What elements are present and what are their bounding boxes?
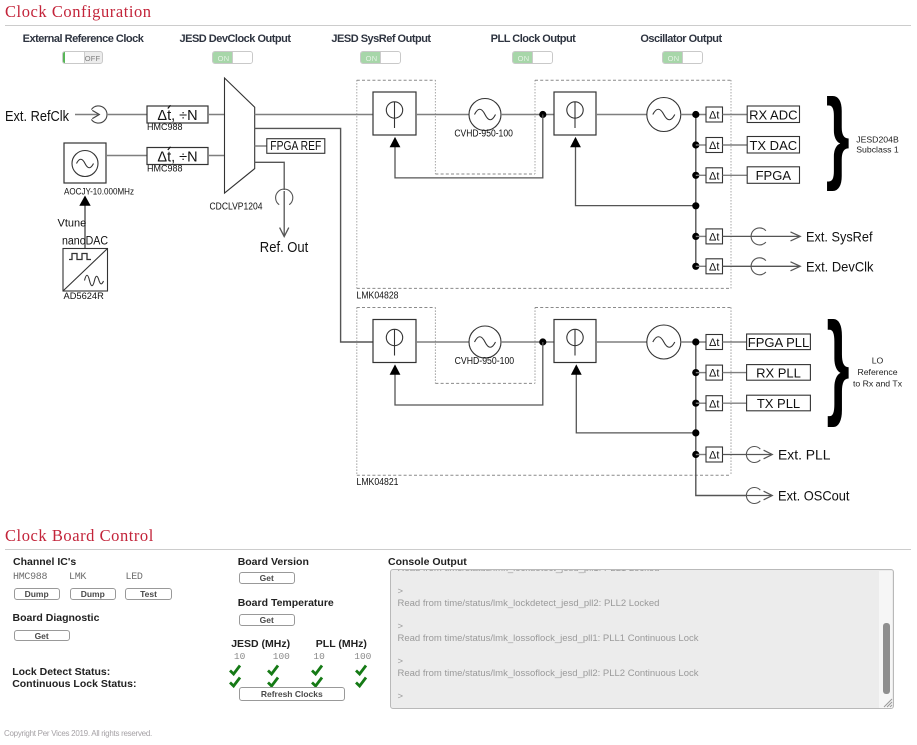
svg-text:TX PLL: TX PLL xyxy=(757,396,800,411)
phase detector PD2 (LMK04828) xyxy=(554,92,596,135)
wire Δt to RX PLL xyxy=(723,372,747,374)
svg-text:HMC988: HMC988 xyxy=(147,122,183,132)
delay Δt (Ext. SysRef row) xyxy=(706,229,723,244)
junction rail Ext. DevClk row xyxy=(692,263,699,270)
wire PD2 to VCO xyxy=(596,114,647,116)
svg-text:}: } xyxy=(826,78,850,192)
junction rail FPGA PLL row xyxy=(692,338,699,345)
svg-text:Δt: Δt xyxy=(709,398,719,410)
svg-text:AD5624R: AD5624R xyxy=(64,291,105,301)
Console Output xyxy=(388,556,467,568)
input port (circle with arrow) xyxy=(91,106,107,123)
wire Δt to FPGA PLL xyxy=(723,341,747,343)
delay Δt (Ext. PLL row) xyxy=(706,447,723,462)
node RX ADC xyxy=(747,106,799,123)
wire VCO to delay row FPGA PLL xyxy=(681,341,706,343)
wire PD2 to VCO xyxy=(596,341,647,343)
oscillator VCO (LMK04828) xyxy=(647,98,681,132)
junction rail TX DAC row xyxy=(692,141,699,148)
wire Vtune xyxy=(84,205,86,249)
toggle JESD SysRef Output (ON) xyxy=(360,51,401,64)
delay Δt (Ext. DevClk row) xyxy=(706,259,723,274)
brace LO Reference xyxy=(827,299,850,429)
toggle External Reference Clock (OFF) xyxy=(62,51,103,64)
svg-text:CDCLVP1204: CDCLVP1204 xyxy=(210,202,263,213)
junction xyxy=(539,111,546,118)
svg-text:LMK04828: LMK04828 xyxy=(357,290,399,301)
Lock status labels xyxy=(12,666,110,678)
Section heading: Clock Configuration xyxy=(5,2,152,22)
wire PD1 to VCXO xyxy=(416,341,469,343)
divider U2 HMC988 (Δt, ÷N) xyxy=(147,147,208,166)
node TX PLL xyxy=(747,395,811,411)
wire VCXO to PD2 xyxy=(501,114,554,116)
wire PD1 to VCXO xyxy=(416,114,469,116)
wire U2 to mux xyxy=(208,155,225,157)
svg-text:CVHD-950-100: CVHD-950-100 xyxy=(455,356,515,367)
feedback wire PD2 from rail xyxy=(576,375,696,433)
wire rail to Δt (TX DAC row) xyxy=(696,144,706,146)
Board Diagnostic xyxy=(13,612,100,624)
wire mux out3 to FPGA REF xyxy=(255,145,267,147)
svg-text:Δt: Δt xyxy=(709,450,719,462)
feedback wire PD2 from rail xyxy=(576,147,696,206)
svg-text:FPGA: FPGA xyxy=(756,168,792,183)
wire VCXO to PD2 xyxy=(501,341,554,343)
IC outline LMK04821 (dashed, notch for VCXO) xyxy=(357,308,731,476)
phase detector PD1 (LMK04821) xyxy=(373,320,416,363)
phase detector PD2 (LMK04821) xyxy=(554,320,596,363)
Channel IC's xyxy=(13,556,76,568)
label JESD204B Subclass 1 xyxy=(856,135,899,155)
svg-text:Vtune: Vtune xyxy=(58,218,87,230)
column headers xyxy=(3,33,163,45)
toggle Oscillator Output (ON) xyxy=(662,51,703,64)
arrowhead PD1 feedback xyxy=(390,364,401,374)
svg-text:Δt: Δt xyxy=(709,232,719,244)
toggle JESD DevClock Output (ON) xyxy=(212,51,253,64)
svg-text:FPGA REF: FPGA REF xyxy=(270,139,321,153)
junction rail Ext. SysRef row xyxy=(692,233,699,240)
node RX PLL xyxy=(747,365,811,381)
svg-text:Ext. OSCout: Ext. OSCout xyxy=(778,488,850,504)
arrowhead PD2 feedback xyxy=(570,137,581,147)
Board Temperature xyxy=(238,597,334,609)
checkmarks grid xyxy=(220,661,380,693)
svg-text:CVHD-950-100: CVHD-950-100 xyxy=(454,128,513,139)
svg-text:Ext. SysRef: Ext. SysRef xyxy=(806,228,873,244)
toggle PLL Clock Output (ON) xyxy=(512,51,553,64)
junction rail feedback row xyxy=(692,202,699,209)
arrowhead Vtune xyxy=(79,196,90,206)
wire Δt to RX ADC xyxy=(723,114,748,116)
wire mux out1 to PD1 LMK04828 xyxy=(255,114,373,116)
delay Δt (TX PLL row) xyxy=(706,396,723,411)
node FPGA REF xyxy=(267,139,325,154)
svg-text:Subclass 1: Subclass 1 xyxy=(856,145,899,155)
node FPGA PLL xyxy=(747,334,811,350)
svg-text:Δt: Δt xyxy=(709,170,719,182)
oscillator AOCJY-10.000MHz xyxy=(64,143,106,183)
wire Δt to TX DAC xyxy=(723,144,748,146)
wire input port to divider U1 xyxy=(107,114,147,116)
delay Δt (TX DAC row) xyxy=(706,138,723,153)
svg-text:Δt: Δt xyxy=(709,140,719,152)
svg-text:HMC988: HMC988 xyxy=(147,163,183,173)
mux CDCLVP1204 xyxy=(225,78,255,193)
svg-text:TX DAC: TX DAC xyxy=(749,138,797,153)
node FPGA xyxy=(747,167,799,184)
footer xyxy=(4,729,152,738)
delay Δt (FPGA PLL row) xyxy=(706,335,723,350)
junction rail TX PLL row xyxy=(692,400,699,407)
wire and output port Ext. OSCout xyxy=(746,487,772,503)
wire mux out2 to PD1 LMK04821 xyxy=(255,128,373,342)
svg-text:JESD204B: JESD204B xyxy=(856,135,899,145)
svg-text:to Rx and Tx: to Rx and Tx xyxy=(853,379,903,389)
wire U1 to mux xyxy=(208,114,225,116)
svg-text:RX PLL: RX PLL xyxy=(756,365,801,380)
clock rail LMK04821 xyxy=(696,342,747,496)
label LO Reference to Rx and Tx xyxy=(853,356,903,389)
output port Ref. Out (circle with arrow down) xyxy=(276,189,293,236)
Section heading: Clock Board Control xyxy=(5,526,154,546)
svg-text:Δt: Δt xyxy=(709,110,719,122)
JESD / PLL headers xyxy=(231,638,290,650)
junction rail RX ADC row xyxy=(692,111,699,118)
svg-text:Ext. DevClk: Ext. DevClk xyxy=(806,258,874,274)
arrowhead PD2 feedback xyxy=(571,364,582,374)
svg-text:Ext. PLL: Ext. PLL xyxy=(778,447,831,463)
svg-text:}: } xyxy=(827,299,850,429)
node TX DAC xyxy=(747,137,799,154)
brace JESD204B xyxy=(826,78,850,192)
svg-text:Δt: Δt xyxy=(709,337,719,349)
svg-text:AOCJY-10.000MHz: AOCJY-10.000MHz xyxy=(64,186,134,196)
wire VCO to delay row RX ADC xyxy=(681,114,706,116)
svg-text:Reference: Reference xyxy=(857,367,897,377)
feedback wire PD1 xyxy=(395,115,543,178)
svg-text:FPGA PLL: FPGA PLL xyxy=(748,335,809,350)
wire rail to Δt (TX PLL row) xyxy=(696,402,706,404)
divider U1 HMC988 (Δt, ÷N) xyxy=(147,105,208,124)
wire and output port Ext. SysRef xyxy=(723,228,801,245)
arrowhead PD1 feedback xyxy=(390,137,401,147)
wire Ext.RefClk to input port xyxy=(75,114,98,116)
wire mux out4 to Ref. Out port xyxy=(255,162,285,190)
nanoDAC AD5624R xyxy=(63,249,108,292)
junction xyxy=(539,338,546,345)
delay Δt (RX ADC row) xyxy=(706,107,723,122)
wire and output port Ext. PLL xyxy=(723,447,773,463)
wire Δt to TX PLL xyxy=(723,402,747,404)
delay Δt (RX PLL row) xyxy=(706,365,723,380)
Board Version xyxy=(238,556,309,568)
svg-text:RX ADC: RX ADC xyxy=(749,107,797,122)
svg-text:Ref. Out: Ref. Out xyxy=(260,240,309,256)
wire rail to Δt (Ext. DevClk row) xyxy=(696,265,706,267)
Refresh Clocks xyxy=(239,687,345,700)
IC outline LMK04828 (dashed, notch for VCXO) xyxy=(357,80,731,288)
junction rail feedback row xyxy=(692,429,699,436)
svg-text:LMK04821: LMK04821 xyxy=(357,477,399,488)
oscillator VCXO CVHD-950-100 xyxy=(469,326,501,358)
oscillator VCXO CVHD-950-100 xyxy=(469,99,501,131)
wire oscillator to divider U2 xyxy=(106,155,147,157)
feedback wire PD1 xyxy=(395,342,543,405)
wire rail to Δt (Ext. PLL row) xyxy=(696,454,706,456)
svg-text:LO: LO xyxy=(872,356,884,366)
wire and output port Ext. DevClk xyxy=(723,258,801,275)
svg-text:Δt: Δt xyxy=(709,261,719,273)
junction rail Ext. PLL row xyxy=(692,451,699,458)
wire rail to Δt (RX PLL row) xyxy=(696,372,706,374)
wire rail to Δt (FPGA row) xyxy=(696,174,706,176)
oscillator VCO (LMK04821) xyxy=(647,325,681,359)
wire rail to Δt (Ext. SysRef row) xyxy=(696,235,706,237)
svg-text:Δt: Δt xyxy=(709,368,719,380)
svg-text:Ext. RefClk: Ext. RefClk xyxy=(5,109,70,125)
delay Δt (FPGA row) xyxy=(706,168,723,183)
clock rail LMK04828 xyxy=(695,115,697,267)
phase detector PD1 (LMK04828) xyxy=(373,92,416,135)
junction rail FPGA row xyxy=(692,172,699,179)
wire Δt to FPGA xyxy=(723,174,748,176)
junction rail RX PLL row xyxy=(692,369,699,376)
